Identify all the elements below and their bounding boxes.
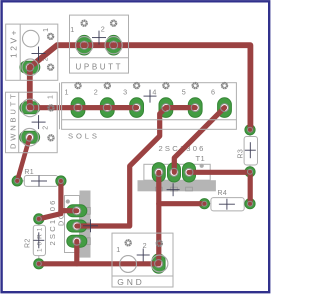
svg-text:5: 5 xyxy=(182,87,186,96)
svg-text:2: 2 xyxy=(43,126,50,130)
svg-text:1: 1 xyxy=(43,28,50,32)
svg-text:1: 1 xyxy=(48,95,55,99)
svg-text:3: 3 xyxy=(123,87,127,96)
svg-text:R4: R4 xyxy=(218,190,228,197)
svg-text:1: 1 xyxy=(116,245,120,254)
svg-text:1: 1 xyxy=(70,25,74,34)
svg-text:2: 2 xyxy=(94,87,98,96)
svg-text:UPBUTT: UPBUTT xyxy=(76,62,124,71)
svg-text:SOLS: SOLS xyxy=(68,131,100,140)
svg-text:4: 4 xyxy=(152,87,156,96)
svg-text:10R1: 10R1 xyxy=(37,225,44,252)
svg-text:12V+: 12V+ xyxy=(9,28,19,58)
svg-text:6: 6 xyxy=(211,87,215,96)
svg-text:R1: R1 xyxy=(24,169,34,176)
svg-text:R3: R3 xyxy=(238,149,245,159)
svg-text:1: 1 xyxy=(65,87,69,96)
svg-text:R2: R2 xyxy=(25,238,32,248)
svg-text:2: 2 xyxy=(101,24,105,33)
svg-text:GND: GND xyxy=(117,277,144,287)
svg-text:DWNBUTT: DWNBUTT xyxy=(8,91,17,149)
svg-text:T1: T1 xyxy=(196,154,205,163)
